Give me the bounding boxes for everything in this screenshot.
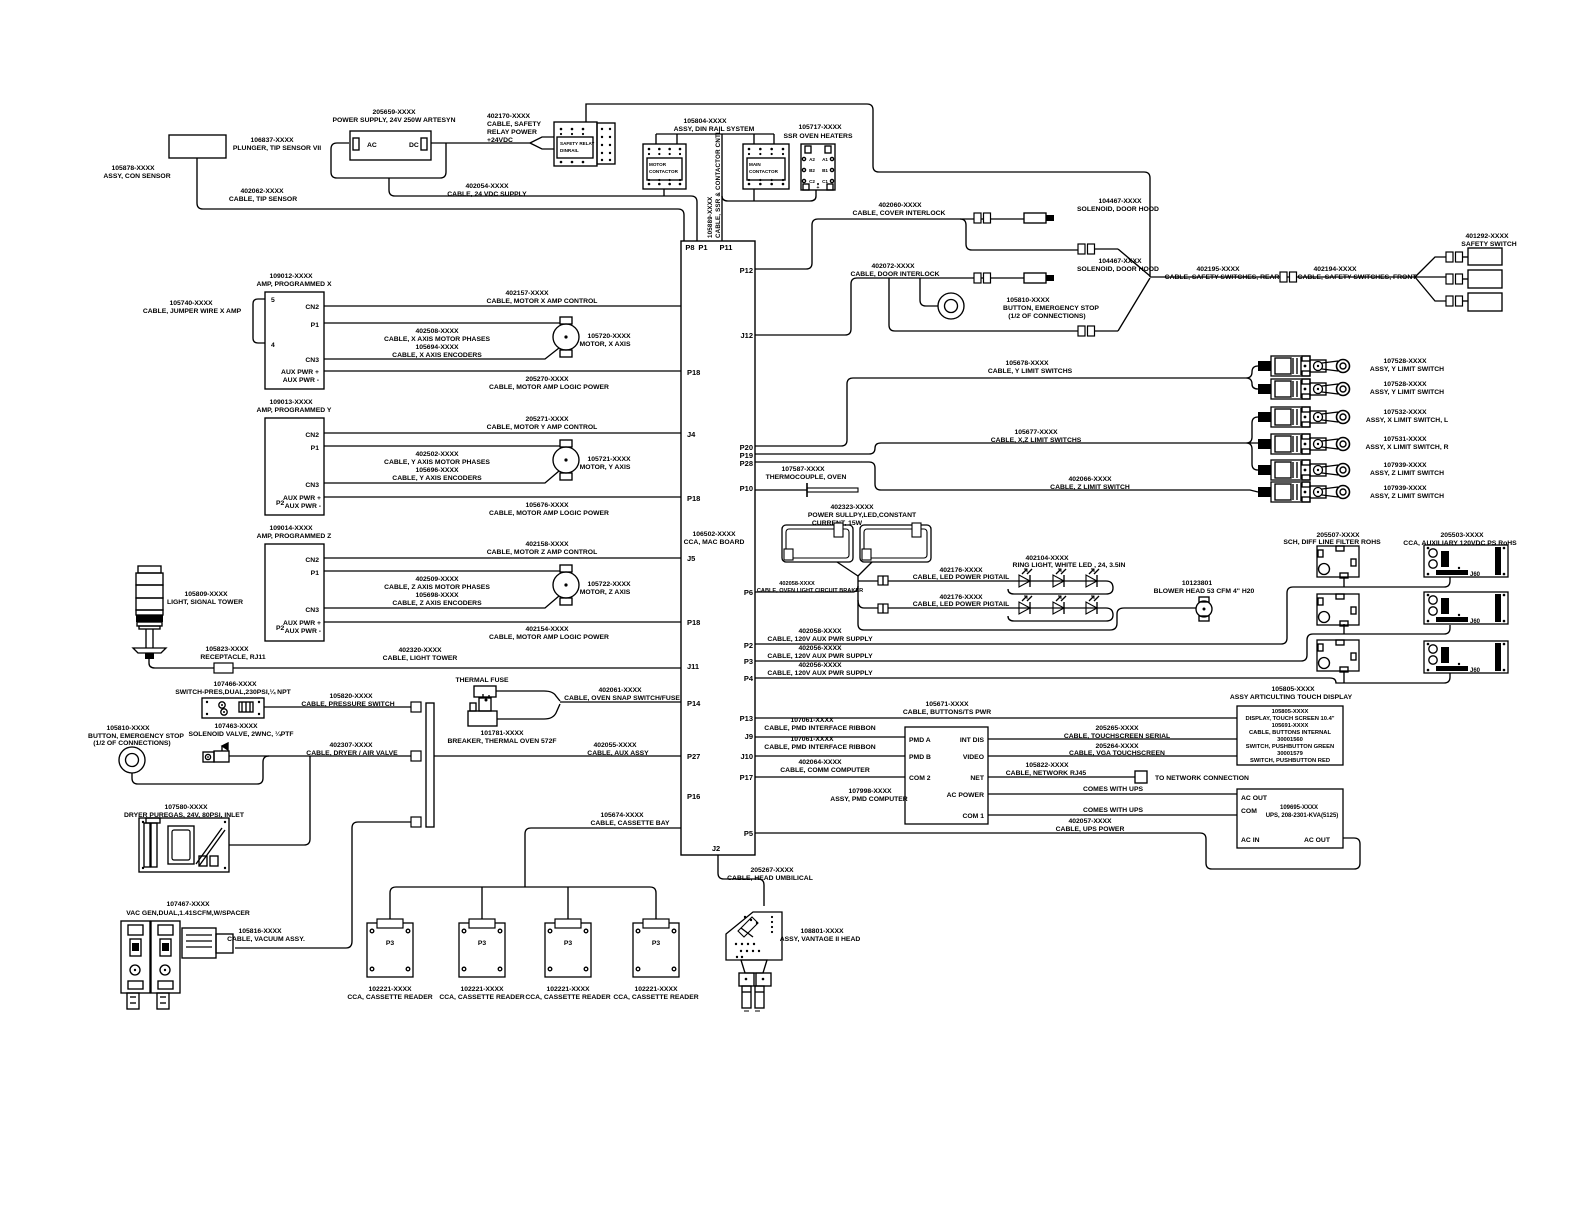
svg-text:COM 1: COM 1 [962,813,984,820]
svg-text:C1: C1 [822,179,828,184]
svg-text:P12: P12 [740,266,753,275]
svg-text:SWITCH, PUSHBUTTON RED: SWITCH, PUSHBUTTON RED [1250,758,1330,764]
svg-text:RECEPTACLE, RJ11: RECEPTACLE, RJ11 [200,654,265,661]
svg-text:402061-XXXX: 402061-XXXX [598,687,642,694]
svg-text:AUX PWR +: AUX PWR + [283,620,321,627]
svg-text:P2: P2 [276,500,285,507]
svg-text:CABLE, 24 VDC SUPPLY: CABLE, 24 VDC SUPPLY [447,191,527,198]
svg-text:J11: J11 [687,662,699,671]
svg-text:BUTTON, EMERGENCY STOP: BUTTON, EMERGENCY STOP [88,733,184,740]
svg-text:106502-XXXX: 106502-XXXX [692,531,736,538]
svg-text:CABLE, Y AXIS MOTOR PHASES: CABLE, Y AXIS MOTOR PHASES [384,459,490,466]
svg-text:VAC GEN,DUAL,1.41SCFM,W/SPACER: VAC GEN,DUAL,1.41SCFM,W/SPACER [126,910,250,917]
svg-text:AUX PWR +: AUX PWR + [281,369,319,376]
svg-text:101781-XXXX: 101781-XXXX [480,730,524,737]
svg-text:205264-XXXX: 205264-XXXX [1095,743,1139,750]
svg-text:A2: A2 [809,157,815,162]
svg-text:BUTTON, EMERGENCY STOP: BUTTON, EMERGENCY STOP [1003,305,1099,312]
svg-text:AMP, PROGRAMMED Z: AMP, PROGRAMMED Z [257,533,332,540]
svg-text:CABLE, Z AXIS MOTOR PHASES: CABLE, Z AXIS MOTOR PHASES [384,584,490,591]
svg-text:402157-XXXX: 402157-XXXX [505,290,549,297]
svg-text:CONTACTOR: CONTACTOR [649,169,679,174]
svg-text:P3: P3 [478,940,487,947]
svg-text:CABLE, SAFETY: CABLE, SAFETY [487,121,541,128]
svg-text:402062-XXXX: 402062-XXXX [240,188,284,195]
svg-text:J10: J10 [740,752,753,761]
svg-text:105822-XXXX: 105822-XXXX [1025,762,1069,769]
svg-text:SAFETY SWITCH: SAFETY SWITCH [1461,241,1516,248]
svg-text:P3: P3 [564,940,573,947]
svg-text:105691-XXXX: 105691-XXXX [1272,723,1309,729]
svg-text:105671-XXXX: 105671-XXXX [925,701,969,708]
svg-text:105696-XXXX: 105696-XXXX [415,467,459,474]
svg-text:107531-XXXX: 107531-XXXX [1383,436,1427,443]
svg-text:105805-XXXX: 105805-XXXX [1271,686,1315,693]
svg-text:105740-XXXX: 105740-XXXX [169,300,213,307]
svg-text:CABLE, OVEN LIGHT CIRCUIT BRAK: CABLE, OVEN LIGHT CIRCUIT BRAKER [757,588,863,594]
svg-text:CABLE, BUTTONS/TS PWR: CABLE, BUTTONS/TS PWR [903,709,991,716]
svg-text:P1: P1 [311,570,320,577]
svg-text:402058-XXXX: 402058-XXXX [798,628,842,635]
svg-text:CABLE, COMM COMPUTER: CABLE, COMM COMPUTER [780,767,870,774]
svg-text:AUX PWR -: AUX PWR - [285,503,321,510]
svg-text:PMD A: PMD A [909,737,931,744]
svg-text:CABLE, MOTOR Y AMP CONTROL: CABLE, MOTOR Y AMP CONTROL [487,424,598,431]
svg-text:105717-XXXX: 105717-XXXX [798,124,842,131]
svg-text:J5: J5 [687,554,695,563]
svg-text:CABLE, DOOR INTERLOCK: CABLE, DOOR INTERLOCK [850,271,939,278]
svg-text:DINRAIL: DINRAIL [560,148,579,153]
svg-text:(1/2 OF CONNECTIONS): (1/2 OF CONNECTIONS) [93,740,170,747]
svg-text:+24VDC: +24VDC [487,137,513,144]
svg-text:INT DIS: INT DIS [960,737,985,744]
svg-text:VIDEO: VIDEO [963,754,984,761]
svg-text:RING LIGHT, WHITE LED , 24, 3.: RING LIGHT, WHITE LED , 24, 3.5IN [1013,562,1126,569]
svg-text:POWER SULLPY,LED,CONSTANT: POWER SULLPY,LED,CONSTANT [808,512,917,519]
svg-text:LIGHT, SIGNAL TOWER: LIGHT, SIGNAL TOWER [167,599,243,606]
svg-text:402054-XXXX: 402054-XXXX [465,183,509,190]
svg-text:CONTACTOR: CONTACTOR [749,169,779,174]
svg-text:107587-XXXX: 107587-XXXX [781,466,825,473]
svg-text:P18: P18 [687,494,700,503]
svg-text:402509-XXXX: 402509-XXXX [415,576,459,583]
svg-text:402056-XXXX: 402056-XXXX [798,645,842,652]
svg-text:CABLE, Z AXIS ENCODERS: CABLE, Z AXIS ENCODERS [392,600,482,607]
svg-text:CABLE, TIP SENSOR: CABLE, TIP SENSOR [229,196,297,203]
svg-text:402502-XXXX: 402502-XXXX [415,451,459,458]
svg-text:MAIN: MAIN [749,162,761,167]
svg-text:MOTOR, Z AXIS: MOTOR, Z AXIS [580,589,631,596]
svg-text:105678-XXXX: 105678-XXXX [1005,360,1049,367]
svg-text:5: 5 [271,297,275,304]
svg-text:402055-XXXX: 402055-XXXX [593,742,637,749]
svg-text:402195-XXXX: 402195-XXXX [1196,266,1240,273]
svg-text:10123801: 10123801 [1182,580,1212,587]
svg-text:CABLE, MOTOR Z AMP CONTROL: CABLE, MOTOR Z AMP CONTROL [487,549,598,556]
svg-text:105804-XXXX: 105804-XXXX [683,118,727,125]
svg-text:402323-XXXX: 402323-XXXX [830,504,874,511]
svg-text:P18: P18 [687,618,700,627]
svg-text:ASSY, X LIMIT SWITCH, L: ASSY, X LIMIT SWITCH, L [1366,417,1448,424]
svg-text:P1: P1 [311,322,320,329]
svg-text:P11: P11 [720,243,733,252]
svg-text:205271-XXXX: 205271-XXXX [525,416,569,423]
svg-text:PMD B: PMD B [909,754,931,761]
svg-text:107939-XXXX: 107939-XXXX [1383,462,1427,469]
svg-text:107580-XXXX: 107580-XXXX [164,804,208,811]
svg-text:109013-XXXX: 109013-XXXX [269,399,313,406]
svg-text:CABLE, TOUCHSCREEN SERIAL: CABLE, TOUCHSCREEN SERIAL [1064,733,1170,740]
svg-text:CCA, AUXILIARY 120VDC PS RoHS: CCA, AUXILIARY 120VDC PS RoHS [1403,540,1517,547]
svg-text:107466-XXXX: 107466-XXXX [213,681,257,688]
svg-text:SSR OVEN HEATERS: SSR OVEN HEATERS [784,133,853,140]
svg-text:TO NETWORK CONNECTION: TO NETWORK CONNECTION [1155,775,1249,782]
svg-text:105674-XXXX: 105674-XXXX [600,812,644,819]
svg-text:105677-XXXX: 105677-XXXX [1014,429,1058,436]
svg-text:MOTOR, X AXIS: MOTOR, X AXIS [580,341,631,348]
svg-text:CABLE, OVEN SNAP SWITCH/FUSE: CABLE, OVEN SNAP SWITCH/FUSE [564,695,680,702]
svg-text:P1: P1 [698,243,707,252]
svg-text:J60: J60 [1470,572,1481,578]
svg-text:CABLE, LIGHT TOWER: CABLE, LIGHT TOWER [383,655,458,662]
svg-text:SOLENOID VALVE, 2WNC, ¼PTF: SOLENOID VALVE, 2WNC, ¼PTF [188,730,293,738]
svg-text:402154-XXXX: 402154-XXXX [525,626,569,633]
svg-text:CABLE, BUTTONS INTERNAL: CABLE, BUTTONS INTERNAL [1249,730,1331,736]
svg-text:105720-XXXX: 105720-XXXX [587,333,631,340]
svg-text:THERMOCOUPLE, OVEN: THERMOCOUPLE, OVEN [766,474,847,481]
svg-text:A1: A1 [822,157,828,162]
svg-text:CABLE, Y AXIS ENCODERS: CABLE, Y AXIS ENCODERS [392,475,482,482]
svg-text:107998-XXXX: 107998-XXXX [848,788,892,795]
svg-text:107528-XXXX: 107528-XXXX [1383,358,1427,365]
svg-text:402194-XXXX: 402194-XXXX [1313,266,1357,273]
svg-text:107528-XXXX: 107528-XXXX [1383,381,1427,388]
svg-text:BREAKER, THERMAL OVEN 572F: BREAKER, THERMAL OVEN 572F [447,738,556,745]
svg-text:AC OUT: AC OUT [1241,795,1268,802]
svg-text:COM: COM [1241,808,1257,815]
svg-text:PLUNGER, TIP SENSOR VII: PLUNGER, TIP SENSOR VII [233,145,321,152]
svg-text:CCA, MAC BOARD: CCA, MAC BOARD [684,539,745,546]
svg-text:J60: J60 [1470,619,1481,625]
svg-text:102221-XXXX: 102221-XXXX [460,986,504,993]
svg-text:109014-XXXX: 109014-XXXX [269,525,313,532]
svg-text:109012-XXXX: 109012-XXXX [269,273,313,280]
svg-text:102221-XXXX: 102221-XXXX [634,986,678,993]
svg-text:105694-XXXX: 105694-XXXX [415,344,459,351]
svg-text:P16: P16 [687,792,700,801]
svg-text:P28: P28 [740,459,753,468]
svg-text:P14: P14 [687,699,701,708]
svg-text:P8: P8 [685,243,694,252]
svg-text:CABLE, AUX ASSY: CABLE, AUX ASSY [587,750,649,757]
svg-text:102221-XXXX: 102221-XXXX [368,986,412,993]
svg-text:CABLE, X,Z LIMIT SWITCHS: CABLE, X,Z LIMIT SWITCHS [991,437,1082,444]
svg-text:P2: P2 [744,641,753,650]
svg-text:P10: P10 [740,484,753,493]
svg-text:402060-XXXX: 402060-XXXX [878,202,922,209]
svg-text:SWITCH, PUSHBUTTON GREEN: SWITCH, PUSHBUTTON GREEN [1246,744,1334,750]
svg-text:107939-XXXX: 107939-XXXX [1383,485,1427,492]
svg-text:SAFETY RELAY: SAFETY RELAY [560,141,594,146]
svg-text:402320-XXXX: 402320-XXXX [398,647,442,654]
svg-text:RELAY POWER: RELAY POWER [487,129,537,136]
svg-text:CABLE, SSR & CONTACTOR CNTL: CABLE, SSR & CONTACTOR CNTL [715,130,722,238]
svg-text:CCA, CASSETTE READER: CCA, CASSETTE READER [613,994,698,1001]
svg-text:205659-XXXX: 205659-XXXX [372,109,416,116]
svg-text:105805-XXXX: 105805-XXXX [1272,709,1309,715]
svg-text:P3: P3 [386,940,395,947]
svg-text:AMP, PROGRAMMED X: AMP, PROGRAMMED X [256,281,331,288]
svg-text:MOTOR, Y AXIS: MOTOR, Y AXIS [580,464,631,471]
svg-text:CABLE, LED POWER PIGTAIL: CABLE, LED POWER PIGTAIL [913,574,1010,581]
svg-text:105810-XXXX: 105810-XXXX [1006,297,1050,304]
svg-text:P2: P2 [276,625,285,632]
svg-text:402066-XXXX: 402066-XXXX [1068,476,1112,483]
svg-text:CABLE, MOTOR AMP LOGIC POWER: CABLE, MOTOR AMP LOGIC POWER [489,510,609,517]
svg-text:J60: J60 [1470,668,1481,674]
svg-text:205265-XXXX: 205265-XXXX [1095,725,1139,732]
svg-text:P17: P17 [740,773,753,782]
svg-text:NET: NET [970,775,984,782]
svg-text:AC IN: AC IN [1241,837,1260,844]
svg-text:105809-XXXX: 105809-XXXX [184,591,228,598]
svg-text:107061-XXXX: 107061-XXXX [790,717,834,724]
svg-text:CABLE, VGA TOUCHSCREEN: CABLE, VGA TOUCHSCREEN [1069,750,1165,757]
svg-text:402057-XXXX: 402057-XXXX [1068,818,1112,825]
svg-text:107061-XXXX: 107061-XXXX [790,736,834,743]
svg-text:402104-XXXX: 402104-XXXX [1025,555,1069,562]
svg-text:CABLE, CASSETTE BAY: CABLE, CASSETTE BAY [590,820,670,827]
svg-text:COMES WITH UPS: COMES WITH UPS [1083,807,1144,814]
svg-text:(1/2 OF CONNECTIONS): (1/2 OF CONNECTIONS) [1008,313,1085,320]
svg-text:AUX PWR +: AUX PWR + [283,495,321,502]
svg-text:ASSY, Y LIMIT SWITCH: ASSY, Y LIMIT SWITCH [1370,389,1444,396]
svg-text:109695-XXXX: 109695-XXXX [1280,805,1318,811]
svg-text:CCA, CASSETTE READER: CCA, CASSETTE READER [439,994,524,1001]
svg-text:102221-XXXX: 102221-XXXX [546,986,590,993]
svg-text:J9: J9 [745,732,753,741]
svg-text:CN2: CN2 [305,557,319,564]
svg-text:SCH, DIFF LINE FILTER ROHS: SCH, DIFF LINE FILTER ROHS [1283,539,1381,546]
svg-text:CABLE, PMD INTERFACE RIBBON: CABLE, PMD INTERFACE RIBBON [764,744,875,751]
svg-text:105889-XXXX: 105889-XXXX [707,196,714,238]
svg-text:4: 4 [271,342,275,349]
svg-text:P5: P5 [744,829,753,838]
svg-text:CABLE, JUMPER WIRE X AMP: CABLE, JUMPER WIRE X AMP [143,308,242,315]
svg-text:B1: B1 [822,168,828,173]
svg-text:CABLE, Z LIMIT SWITCH: CABLE, Z LIMIT SWITCH [1050,484,1130,491]
svg-text:104467-XXXX: 104467-XXXX [1098,198,1142,205]
svg-text:402056-XXXX: 402056-XXXX [798,662,842,669]
svg-text:205503-XXXX: 205503-XXXX [1440,532,1484,539]
svg-text:BLOWER HEAD 53 CFM 4" H20: BLOWER HEAD 53 CFM 4" H20 [1154,588,1255,595]
svg-text:CN3: CN3 [305,482,319,489]
svg-text:CABLE, NETWORK RJ45: CABLE, NETWORK RJ45 [1006,770,1087,777]
svg-text:402064-XXXX: 402064-XXXX [798,759,842,766]
svg-text:AC POWER: AC POWER [947,792,984,799]
svg-text:CABLE, PMD INTERFACE RIBBON: CABLE, PMD INTERFACE RIBBON [764,725,875,732]
svg-text:CABLE, 120V AUX PWR SUPPLY: CABLE, 120V AUX PWR SUPPLY [767,670,873,677]
svg-text:ASSY, PMD COMPUTER: ASSY, PMD COMPUTER [830,796,908,803]
svg-text:CABLE, COVER INTERLOCK: CABLE, COVER INTERLOCK [853,210,946,217]
svg-text:B2: B2 [809,168,815,173]
svg-text:402176-XXXX: 402176-XXXX [939,567,983,574]
svg-text:COM 2: COM 2 [909,775,931,782]
svg-text:105810-XXXX: 105810-XXXX [106,725,150,732]
svg-text:CABLE, UPS POWER: CABLE, UPS POWER [1056,826,1125,833]
svg-text:ASSY, Z LIMIT SWITCH: ASSY, Z LIMIT SWITCH [1370,470,1444,477]
svg-text:CABLE, LED POWER PIGTAIL: CABLE, LED POWER PIGTAIL [913,601,1010,608]
svg-text:ASSY, CON SENSOR: ASSY, CON SENSOR [103,173,170,180]
svg-text:205507-XXXX: 205507-XXXX [1316,532,1360,539]
svg-text:P3: P3 [652,940,661,947]
svg-text:CN3: CN3 [305,357,319,364]
svg-text:105676-XXXX: 105676-XXXX [525,502,569,509]
svg-text:402307-XXXX: 402307-XXXX [329,742,373,749]
svg-text:107467-XXXX: 107467-XXXX [166,901,210,908]
svg-text:CABLE, 120V AUX PWR SUPPLY: CABLE, 120V AUX PWR SUPPLY [767,653,873,660]
svg-text:J12: J12 [740,331,753,340]
svg-text:AMP, PROGRAMMED Y: AMP, PROGRAMMED Y [257,407,332,414]
svg-text:CABLE, X AXIS MOTOR PHASES: CABLE, X AXIS MOTOR PHASES [384,336,491,343]
svg-text:ASSY ARTICULTING TOUCH DISPLAY: ASSY ARTICULTING TOUCH DISPLAY [1230,694,1353,701]
svg-text:C2: C2 [809,179,815,184]
svg-text:402058-XXXX: 402058-XXXX [779,581,815,587]
svg-text:AC: AC [367,142,377,149]
svg-text:105820-XXXX: 105820-XXXX [329,693,373,700]
svg-text:105878-XXXX: 105878-XXXX [111,165,155,172]
svg-text:AC OUT: AC OUT [1304,837,1331,844]
svg-text:CABLE, MOTOR AMP LOGIC POWER: CABLE, MOTOR AMP LOGIC POWER [489,384,609,391]
svg-text:ASSY, VANTAGE II HEAD: ASSY, VANTAGE II HEAD [780,936,861,943]
svg-text:205267-XXXX: 205267-XXXX [750,867,794,874]
svg-text:108801-XXXX: 108801-XXXX [800,928,844,935]
svg-text:POWER SUPPLY, 24V 250W ARTESYN: POWER SUPPLY, 24V 250W ARTESYN [332,117,455,124]
svg-text:P6: P6 [744,588,753,597]
svg-text:105722-XXXX: 105722-XXXX [587,581,631,588]
svg-text:SWITCH-PRES,DUAL,230PSI,¼ NPT: SWITCH-PRES,DUAL,230PSI,¼ NPT [175,688,291,696]
svg-text:402072-XXXX: 402072-XXXX [871,263,915,270]
svg-text:CN2: CN2 [305,432,319,439]
svg-text:+: + [817,185,820,191]
svg-text:107532-XXXX: 107532-XXXX [1383,409,1427,416]
svg-text:CABLE, VACUUM ASSY.: CABLE, VACUUM ASSY. [227,936,305,943]
svg-text:MOTOR: MOTOR [649,162,667,167]
svg-text:105816-XXXX: 105816-XXXX [238,928,282,935]
svg-text:P27: P27 [687,752,700,761]
svg-text:ASSY, Y LIMIT SWITCH: ASSY, Y LIMIT SWITCH [1370,366,1444,373]
svg-text:CABLE, 120V AUX PWR SUPPLY: CABLE, 120V AUX PWR SUPPLY [767,636,873,643]
svg-text:P4: P4 [744,674,754,683]
svg-text:CABLE, MOTOR X AMP CONTROL: CABLE, MOTOR X AMP CONTROL [487,298,598,305]
svg-text:J4: J4 [687,430,696,439]
svg-text:CABLE, X AXIS ENCODERS: CABLE, X AXIS ENCODERS [392,352,482,359]
svg-text:ASSY, X LIMIT SWITCH, R: ASSY, X LIMIT SWITCH, R [1365,444,1448,451]
svg-text:P13: P13 [740,714,753,723]
svg-text:401292-XXXX: 401292-XXXX [1465,233,1509,240]
svg-text:107463-XXXX: 107463-XXXX [214,723,258,730]
svg-text:402176-XXXX: 402176-XXXX [939,594,983,601]
svg-text:CABLE, MOTOR AMP LOGIC POWER: CABLE, MOTOR AMP LOGIC POWER [489,634,609,641]
svg-text:402170-XXXX: 402170-XXXX [487,113,531,120]
svg-text:P3: P3 [744,657,753,666]
svg-text:30001579: 30001579 [1277,751,1304,757]
svg-text:UPS, 208-2301-KVA(5125): UPS, 208-2301-KVA(5125) [1266,813,1339,819]
svg-text:105698-XXXX: 105698-XXXX [415,592,459,599]
svg-text:CABLE, Y LIMIT SWITCHS: CABLE, Y LIMIT SWITCHS [988,368,1073,375]
svg-text:105721-XXXX: 105721-XXXX [587,456,631,463]
svg-text:J2: J2 [712,844,720,853]
svg-text:P1: P1 [311,445,320,452]
svg-text:CN2: CN2 [305,304,319,311]
svg-text:402508-XXXX: 402508-XXXX [415,328,459,335]
svg-text:THERMAL FUSE: THERMAL FUSE [455,677,509,684]
svg-text:DISPLAY, TOUCH SCREEN 10.4": DISPLAY, TOUCH SCREEN 10.4" [1245,716,1334,722]
svg-text:ASSY, Z LIMIT SWITCH: ASSY, Z LIMIT SWITCH [1370,493,1444,500]
svg-text:CABLE, SAFETY SWITCHES, REAR: CABLE, SAFETY SWITCHES, REAR [1165,274,1280,281]
svg-text:SOLENOID, DOOR HOOD: SOLENOID, DOOR HOOD [1077,266,1159,273]
svg-text:CCA, CASSETTE READER: CCA, CASSETTE READER [347,994,432,1001]
svg-text:CABLE, HEAD UMBILICAL: CABLE, HEAD UMBILICAL [727,875,813,882]
svg-text:205270-XXXX: 205270-XXXX [525,376,569,383]
svg-text:CN3: CN3 [305,607,319,614]
svg-text:30001560: 30001560 [1277,737,1303,743]
svg-text:402158-XXXX: 402158-XXXX [525,541,569,548]
svg-text:CABLE, SAFETY SWITCHES, FRONT: CABLE, SAFETY SWITCHES, FRONT [1298,274,1418,281]
svg-text:COMES WITH UPS: COMES WITH UPS [1083,786,1144,793]
svg-text:CCA, CASSETTE READER: CCA, CASSETTE READER [525,994,610,1001]
svg-text:106837-XXXX: 106837-XXXX [250,137,294,144]
svg-text:DC: DC [409,142,419,149]
svg-text:105823-XXXX: 105823-XXXX [205,646,249,653]
svg-text:AUX PWR -: AUX PWR - [285,628,321,635]
svg-text:SOLENOID, DOOR HOOD: SOLENOID, DOOR HOOD [1077,206,1159,213]
svg-text:P18: P18 [687,368,700,377]
svg-text:AUX PWR -: AUX PWR - [283,377,319,384]
